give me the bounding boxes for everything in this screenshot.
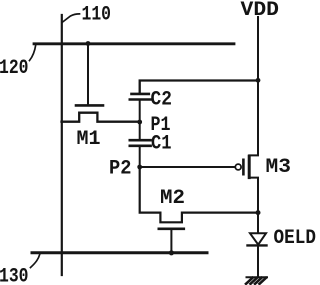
svg-text:M2: M2 [160, 187, 185, 210]
svg-text:C1: C1 [151, 133, 172, 156]
capacitor C2 bottom plate [130, 98, 151, 101]
leader line for label 110 [62, 14, 80, 23]
svg-text:110: 110 [82, 4, 112, 27]
transistor M1 channel [62, 113, 140, 122]
transistor M3 gate bubble (PMOS) [235, 164, 241, 170]
leader line for label 130 [31, 254, 41, 268]
wire: M3 source down to OELD anode [249, 178, 258, 233]
svg-text:P2: P2 [109, 158, 132, 181]
wire: OELD cathode to ground [257, 247, 259, 278]
capacitor C1 bottom plate [130, 145, 151, 148]
transistor M2 channel (with P2 drop wire) [140, 167, 258, 222]
transistor M3 channel bar [248, 156, 251, 177]
wire: C2 to node P1 [139, 101, 141, 122]
svg-text:120: 120 [0, 57, 29, 80]
capacitor C2 top plate [132, 93, 149, 96]
junction: VDD branch dot [256, 78, 261, 83]
transistor M2 gate bar [159, 228, 184, 231]
wire: VDD to C2 top plate [140, 81, 258, 93]
wire: scan line (net 120), horizontal [34, 42, 234, 45]
svg-text:VDD: VDD [241, 0, 280, 22]
svg-text:OELD: OELD [274, 227, 317, 250]
ground symbol hatch strokes [246, 278, 253, 284]
junction: M3 source / M2 drain / OELD node [256, 210, 261, 215]
wire: M2 gate to scan line 130 [170, 230, 172, 253]
transistor M1 gate bar [76, 104, 103, 107]
svg-text:C2: C2 [151, 89, 173, 112]
junction: M1 gate tap on scan line 120 [86, 41, 91, 46]
diode OELD cathode bar [248, 244, 267, 246]
svg-text:130: 130 [0, 266, 29, 285]
wire: node P1 to C1 [139, 122, 141, 139]
node P1 junction dot [137, 120, 142, 125]
wire: C1 to node P2 [139, 147, 141, 167]
wire: scan line (net 130), horizontal [32, 251, 207, 254]
junction: M2 gate tap on line 130 [169, 250, 174, 255]
wire: node P2 to M3 gate [140, 166, 236, 168]
transistor M3 gate bar [242, 160, 245, 174]
wire: VDD line down to M3 drain [249, 17, 258, 155]
capacitor C1 top plate [130, 139, 151, 142]
wire: M1 gate wire [87, 44, 89, 105]
diode OELD triangle (anode) [250, 233, 266, 244]
ground symbol bar [247, 276, 268, 278]
wire: data line (net 110), vertical [61, 15, 63, 275]
svg-text:M1: M1 [77, 128, 101, 151]
node P2 junction dot [137, 165, 142, 170]
leader line for label 120 [30, 45, 36, 61]
svg-text:M3: M3 [266, 156, 292, 179]
